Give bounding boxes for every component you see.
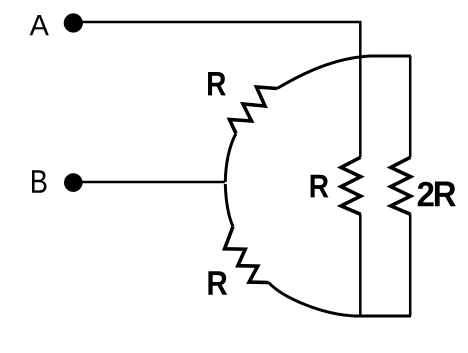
wire from terminal A to top-right corner, then down vertical branch [82,22,360,157]
terminal A dot [64,13,83,32]
wire arc from node B down to resistor R2 [225,184,233,227]
wire arc from node B up to resistor R1 [225,134,236,183]
terminal B dot [64,173,83,192]
node A label [30,15,49,35]
wire arc from resistor R1 to top horizontal [277,56,411,89]
resistor R2 zigzag (lower diagonal) [225,227,269,283]
resistor R1 zigzag (upper diagonal) [230,87,278,134]
wire arc from resistor R2 to bottom horizontal [269,283,411,317]
label R4 value 2R (glyph R) [435,182,456,207]
wire below resistor R3 to bottom node [359,214,362,316]
label R3 value R [311,175,329,198]
label R2 value R [208,271,227,294]
wire from terminal B to center node [82,181,225,184]
wire top of right branch down to resistor R4 [409,56,412,157]
label R4 value 2R (glyph 2) [418,182,434,207]
label R1 value R [208,72,226,95]
wire below resistor R4 to bottom node [409,214,412,316]
resistor R4 zigzag (vertical right branch) [391,157,411,214]
node B label [32,170,47,193]
resistor R3 zigzag (vertical middle branch) [341,157,361,214]
